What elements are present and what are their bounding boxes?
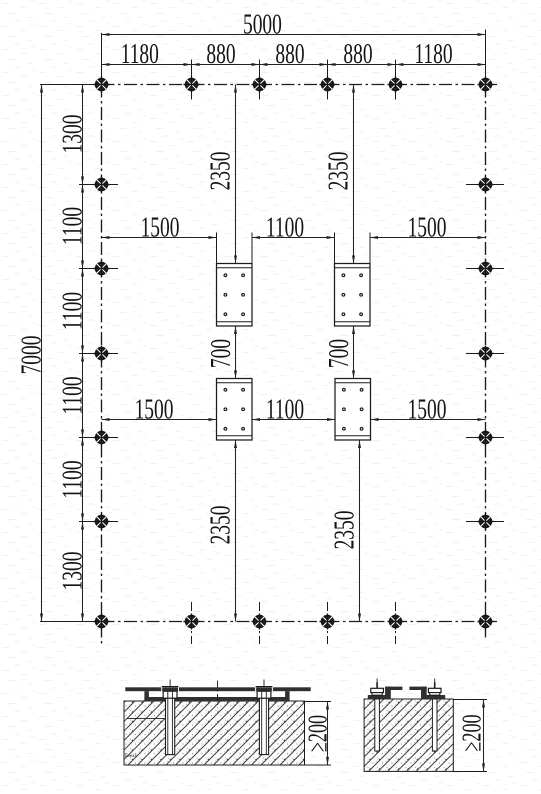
svg-text:1180: 1180	[414, 38, 452, 70]
svg-text:1300: 1300	[57, 115, 89, 154]
svg-text:5000: 5000	[243, 9, 282, 41]
svg-text:2350: 2350	[329, 511, 361, 550]
svg-text:880: 880	[275, 38, 304, 70]
svg-text:7000: 7000	[16, 336, 48, 375]
svg-text:1180: 1180	[121, 38, 159, 70]
svg-text:1500: 1500	[408, 394, 447, 426]
svg-text:1100: 1100	[266, 394, 304, 426]
svg-text:2350: 2350	[323, 152, 355, 191]
svg-text:≥200: ≥200	[457, 714, 486, 751]
svg-text:2350: 2350	[205, 152, 237, 191]
svg-text:1100: 1100	[57, 460, 89, 498]
svg-text:1500: 1500	[408, 212, 447, 244]
svg-text:700: 700	[205, 339, 237, 368]
svg-text:2350: 2350	[205, 506, 237, 545]
svg-text:1100: 1100	[266, 212, 304, 244]
svg-text:1300: 1300	[57, 552, 89, 591]
svg-text:≥200: ≥200	[303, 715, 332, 752]
svg-text:1100: 1100	[57, 292, 89, 330]
svg-text:Eseax: Eseax	[125, 754, 137, 759]
svg-text:1500: 1500	[141, 212, 180, 244]
svg-text:880: 880	[206, 38, 235, 70]
svg-text:1500: 1500	[135, 394, 174, 426]
svg-text:1100: 1100	[57, 207, 89, 245]
svg-text:700: 700	[323, 339, 355, 368]
svg-text:880: 880	[343, 38, 372, 70]
svg-text:1100: 1100	[57, 376, 89, 414]
